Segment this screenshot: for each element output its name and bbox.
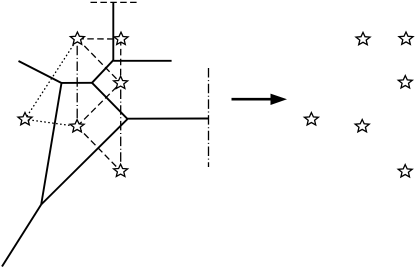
wire Voronoi edge: horizontal ray right of V4 — [128, 118, 210, 120]
wire Voronoi edge: vertical ray down to V3 — [112, 2, 114, 60]
wire dash-dot vertical through sites A and E — [76, 46, 78, 119]
wire dashed Delaunay edge E-F — [77, 126, 121, 171]
wire dash-dot vertical through sites C and F — [120, 90, 122, 165]
wire dashed Delaunay edge A-C — [77, 39, 120, 83]
node site F (star) — [114, 164, 128, 176]
node site A' (star, right point set) — [356, 32, 370, 44]
wire Voronoi edge: V1 to V2 — [62, 82, 93, 84]
node site A (star) — [70, 32, 84, 44]
wire dashed Delaunay edge B-C — [120, 39, 122, 83]
wire dash-dot vertical sweep line — [208, 68, 210, 167]
node site C (star) — [114, 76, 128, 88]
wire dotted edge D-E — [25, 119, 77, 126]
node site D' (star, right point set) — [304, 113, 318, 125]
node site E (star) — [70, 120, 84, 132]
node site F' (star, right point set) — [398, 165, 412, 177]
wire dashed horizontal segment at top — [91, 1, 139, 3]
wire Voronoi edge: V4 to V5 — [41, 119, 127, 205]
wire dashed Delaunay edge A-B — [77, 38, 121, 40]
wire Voronoi edge: V2 to V4 — [92, 83, 128, 119]
node site B (star) — [114, 32, 128, 44]
wire Voronoi edge: V5 ray to bottom-left — [2, 205, 41, 267]
wire dotted edge D-A — [25, 39, 77, 120]
node site D (star) — [18, 113, 32, 125]
node site E' (star, right point set) — [355, 120, 369, 132]
node site C' (star, right point set) — [398, 76, 412, 88]
node site B' (star, right point set) — [399, 32, 413, 44]
wire Voronoi edge: horizontal ray right of V3 — [113, 60, 171, 62]
wire Voronoi edge: V2 to V3 — [92, 60, 113, 83]
wire Voronoi edge: V1 to V5 — [41, 83, 61, 205]
arrow pointing right — [232, 98, 273, 101]
wire Voronoi edge: upper-left ray to vertex V1 — [19, 61, 62, 83]
wire dashed Delaunay edge E-C — [77, 83, 121, 126]
